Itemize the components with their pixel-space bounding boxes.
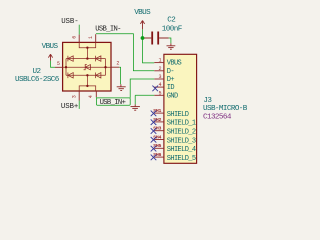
svg-text:D-: D- xyxy=(167,68,175,76)
svg-text:USB-MICRO-B: USB-MICRO-B xyxy=(203,105,248,113)
svg-text:1: 1 xyxy=(88,36,94,39)
svg-text:VBUS: VBUS xyxy=(167,60,182,68)
svg-text:SHIELD_1: SHIELD_1 xyxy=(167,120,196,128)
svg-text:2: 2 xyxy=(116,60,119,66)
svg-text:SHIELD: SHIELD xyxy=(167,111,189,119)
svg-text:SHIELD_3: SHIELD_3 xyxy=(167,137,196,145)
svg-text:SH4: SH4 xyxy=(153,134,161,140)
svg-text:6: 6 xyxy=(72,36,78,39)
svg-text:SH3: SH3 xyxy=(153,126,161,132)
svg-text:USB_IN-: USB_IN- xyxy=(95,26,121,34)
svg-text:100nF: 100nF xyxy=(162,26,183,34)
svg-text:4: 4 xyxy=(159,82,162,88)
svg-text:SH5: SH5 xyxy=(153,143,161,149)
svg-text:SH1: SH1 xyxy=(153,108,161,114)
svg-text:SHIELD_5: SHIELD_5 xyxy=(167,155,196,163)
svg-text:1: 1 xyxy=(159,58,162,64)
svg-text:VBUS: VBUS xyxy=(42,43,59,51)
svg-text:GND: GND xyxy=(167,92,178,100)
svg-text:2: 2 xyxy=(159,66,162,72)
svg-text:SHIELD_4: SHIELD_4 xyxy=(167,146,196,154)
svg-text:VBUS: VBUS xyxy=(134,9,151,17)
svg-text:3: 3 xyxy=(72,95,78,98)
svg-text:USB-: USB- xyxy=(61,18,78,26)
svg-text:5: 5 xyxy=(57,61,60,67)
svg-text:SHIELD_2: SHIELD_2 xyxy=(167,129,196,137)
svg-text:C2: C2 xyxy=(167,17,176,25)
svg-text:3: 3 xyxy=(159,74,162,80)
svg-text:SH2: SH2 xyxy=(153,117,161,123)
svg-text:U2: U2 xyxy=(33,68,42,76)
svg-text:C132564: C132564 xyxy=(203,113,232,121)
svg-text:SH6: SH6 xyxy=(153,152,161,158)
svg-text:USB_IN+: USB_IN+ xyxy=(100,99,126,107)
svg-text:ID: ID xyxy=(167,84,175,92)
svg-text:4: 4 xyxy=(88,95,94,98)
svg-text:5: 5 xyxy=(159,90,162,96)
svg-text:D+: D+ xyxy=(167,76,175,84)
svg-text:USBLC6-2SC6: USBLC6-2SC6 xyxy=(15,76,60,84)
svg-text:USB+: USB+ xyxy=(61,103,79,111)
